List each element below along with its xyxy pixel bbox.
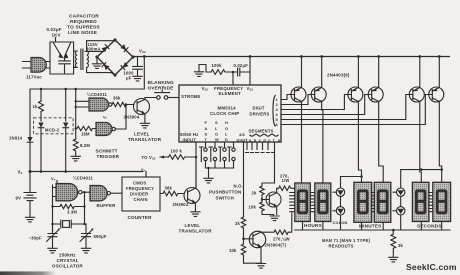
svg-text:10k: 10k <box>229 248 237 253</box>
svg-text:READOUTS: READOUTS <box>329 244 354 249</box>
svg-text:2N3904: 2N3904 <box>124 115 140 120</box>
svg-text:CHAIN: CHAIN <box>134 197 148 202</box>
svg-text:CMOS: CMOS <box>133 181 146 186</box>
svg-text:MM5314: MM5314 <box>218 105 237 110</box>
svg-text:1KV: 1KV <box>52 33 61 38</box>
svg-text:TRANSLATOR: TRANSLATOR <box>128 137 162 142</box>
svg-text:DRIVERS: DRIVERS <box>250 112 270 117</box>
svg-text:LEVEL: LEVEL <box>134 132 150 137</box>
svg-text:FREQUENCY: FREQUENCY <box>126 186 154 191</box>
svg-text:COUNTER: COUNTER <box>128 215 153 220</box>
svg-text:2N4403(6): 2N4403(6) <box>327 73 350 78</box>
svg-text:MINUTES: MINUTES <box>359 224 382 229</box>
svg-text:Vₐ: Vₐ <box>103 116 108 120</box>
svg-text:O: O <box>215 131 218 136</box>
svg-text:INPUT: INPUT <box>183 137 197 142</box>
svg-text:Vₐₐ: Vₐₐ <box>202 86 209 91</box>
svg-text:2N3904: 2N3904 <box>173 202 189 207</box>
svg-text:S: S <box>205 131 208 136</box>
svg-text:1N914: 1N914 <box>9 136 23 141</box>
svg-text:SCHMITT: SCHMITT <box>96 149 118 154</box>
svg-text:¼CD4011: ¼CD4011 <box>73 176 93 181</box>
svg-text:590μF: 590μF <box>94 234 107 239</box>
svg-text:DIGIT: DIGIT <box>253 106 265 111</box>
svg-text:9V: 9V <box>16 196 22 201</box>
svg-text:100 k: 100 k <box>171 149 183 154</box>
svg-text:D: D <box>225 137 228 142</box>
svg-text:STROBE: STROBE <box>181 94 201 99</box>
svg-text:d: d <box>263 137 266 142</box>
svg-text:~30pF: ~30pF <box>29 236 42 241</box>
svg-text:16M: 16M <box>81 132 90 137</box>
svg-text:COLON: COLON <box>333 220 348 225</box>
svg-text:¼CD4011: ¼CD4011 <box>87 92 107 97</box>
svg-text:3k: 3k <box>398 243 404 248</box>
svg-text:DIVIDER: DIVIDER <box>130 192 148 197</box>
svg-text:100k: 100k <box>212 63 223 68</box>
svg-text:MCD-2: MCD-2 <box>45 128 60 133</box>
svg-text:2k: 2k <box>235 221 241 226</box>
svg-text:L: L <box>225 131 228 136</box>
svg-text:S: S <box>215 120 218 125</box>
svg-text:3.3M: 3.3M <box>67 210 77 215</box>
svg-text:Vₐₐ: Vₐₐ <box>139 49 146 54</box>
svg-text:L: L <box>215 126 218 131</box>
svg-text:SECONDS: SECONDS <box>417 224 442 229</box>
svg-text:OVERRIDE: OVERRIDE <box>148 86 174 91</box>
svg-text:Vₐₐ: Vₐₐ <box>247 86 254 91</box>
svg-text:W: W <box>215 137 219 142</box>
svg-text:300mA: 300mA <box>86 46 101 51</box>
svg-text:PUSHBUTTON: PUSHBUTTON <box>209 190 241 195</box>
svg-text:36k: 36k <box>165 186 173 191</box>
svg-text:N.O.: N.O. <box>234 184 243 189</box>
svg-text:TO Vₐₐ: TO Vₐₐ <box>142 155 156 160</box>
svg-text:270,⅛W: 270,⅛W <box>273 237 290 242</box>
svg-text:REQUIRED: REQUIRED <box>70 19 97 25</box>
svg-text:BLANKING: BLANKING <box>148 80 174 85</box>
svg-text:T: T <box>205 137 208 142</box>
svg-text:1/W: 1/W <box>282 178 290 183</box>
svg-text:CAPACITOR: CAPACITOR <box>69 14 99 20</box>
svg-text:ELEMENT: ELEMENT <box>219 91 241 96</box>
svg-text:A: A <box>205 126 208 131</box>
svg-text:CRYSTAL: CRYSTAL <box>57 258 79 263</box>
svg-text:1k: 1k <box>33 104 39 109</box>
svg-text:O: O <box>225 126 228 131</box>
svg-text:OSCILLATOR: OSCILLATOR <box>52 264 83 269</box>
svg-text:F: F <box>205 120 208 125</box>
svg-text:Vₐ: Vₐ <box>141 168 146 172</box>
svg-text:g: g <box>278 137 281 142</box>
svg-text:250kHz: 250kHz <box>59 253 76 258</box>
svg-text:0.02μF: 0.02μF <box>234 63 249 68</box>
svg-text:0.02μF: 0.02μF <box>47 27 62 32</box>
svg-text:SEGMENTS: SEGMENTS <box>249 129 274 134</box>
svg-text:36k: 36k <box>113 96 121 101</box>
svg-text:Vₐ: Vₐ <box>51 177 56 181</box>
svg-text:TO SUPRESS: TO SUPRESS <box>67 25 100 31</box>
svg-text:117Vac: 117Vac <box>26 75 42 80</box>
svg-text:CLOCK CHIP: CLOCK CHIP <box>210 111 239 116</box>
svg-text:Vₐ: Vₐ <box>18 170 23 175</box>
svg-text:LINE NOISE: LINE NOISE <box>68 30 98 36</box>
svg-text:8.2M: 8.2M <box>80 143 90 148</box>
svg-text:TRANSLATOR: TRANSLATOR <box>179 229 213 234</box>
svg-text:H: H <box>225 120 228 125</box>
svg-text:MAN 71 (MAN 1 TYPE): MAN 71 (MAN 1 TYPE) <box>322 238 371 243</box>
svg-text:LEVEL: LEVEL <box>185 223 201 228</box>
svg-text:10k: 10k <box>249 205 257 210</box>
svg-text:2N3904(7): 2N3904(7) <box>265 243 287 248</box>
svg-text:SWITCH: SWITCH <box>216 196 235 201</box>
svg-text:b: b <box>254 137 257 142</box>
svg-text:4/6: 4/6 <box>239 132 246 137</box>
svg-text:μF: μF <box>126 76 132 81</box>
svg-text:2k: 2k <box>252 191 258 196</box>
svg-text:HOURS: HOURS <box>304 223 322 228</box>
svg-text:BUFFER: BUFFER <box>97 203 117 208</box>
svg-text:SeekIC.com: SeekIC.com <box>406 262 457 272</box>
svg-text:TRIGGER: TRIGGER <box>97 154 120 159</box>
